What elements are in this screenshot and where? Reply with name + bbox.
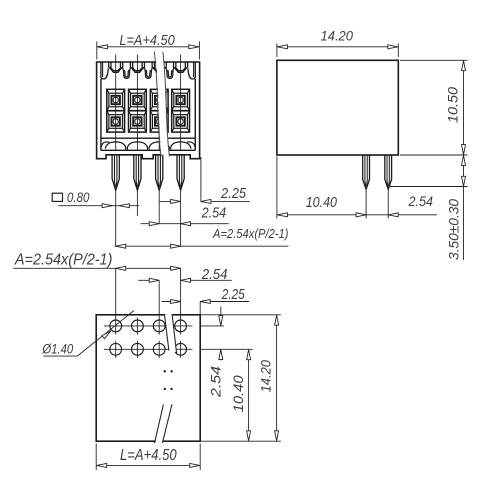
extension line right edge (2.25 bottom) bbox=[199, 302, 201, 315]
leader underline Ø1.40 bbox=[43, 355, 77, 357]
arrowhead 2.54 vertical top bbox=[219, 316, 223, 326]
arrowhead 2.25 front bbox=[171, 199, 181, 203]
socket contact col 4 row 2 bbox=[172, 111, 190, 132]
pin 1 (front) bbox=[112, 155, 119, 191]
arrowhead A front right bbox=[171, 244, 181, 248]
side pin 1 bbox=[363, 155, 370, 189]
hole col 3 row 2 (Ø1.40) bbox=[153, 343, 165, 355]
side pin 1 centerline bbox=[365, 189, 367, 218]
arrowhead L bottom left bbox=[97, 463, 107, 467]
arrowhead 14.20 left bbox=[277, 45, 287, 49]
arrowhead 10.50 top bbox=[462, 61, 466, 71]
extension line bottom right (10.50) bbox=[400, 154, 468, 156]
break line 2 (footprint bottom) bbox=[162, 405, 172, 444]
hole col 3 row 1 (Ø1.40) bbox=[153, 320, 165, 332]
svg-text:10.40: 10.40 bbox=[306, 195, 337, 211]
side view of connector bbox=[277, 29, 468, 260]
svg-text:14.20: 14.20 bbox=[258, 360, 273, 393]
arrowhead 2.54 front right bbox=[181, 222, 191, 226]
dimension line L=A+4.50 (bottom) bbox=[96, 464, 200, 466]
front view of connector bbox=[52, 32, 288, 248]
hole col 4 row 1 (Ø1.40) bbox=[175, 320, 187, 332]
arrowhead 14.20 bottom bbox=[275, 431, 279, 441]
break line 1 (front) bbox=[154, 52, 161, 157]
arrowhead 10.40 top bbox=[247, 350, 251, 360]
socket contact col 1 row 1 bbox=[107, 89, 125, 110]
centerline column 1 (front) bbox=[115, 55, 117, 151]
socket contact col 1 row 2 bbox=[107, 111, 125, 132]
arrowhead 10.40 right bbox=[356, 213, 366, 217]
footprint rectangle bbox=[96, 315, 200, 441]
hole column 3 crosshair vertical row 2 bbox=[158, 341, 160, 358]
extension row 1 to right bbox=[201, 325, 224, 327]
dimension line 10.40 and 2.54 (side) bbox=[277, 214, 437, 216]
bottom view / PCB footprint bbox=[13, 251, 281, 470]
dimension line 2.54 vertical upper part bbox=[220, 307, 222, 326]
break line 2 (footprint holes) bbox=[172, 314, 177, 353]
svg-text:2.54: 2.54 bbox=[207, 366, 223, 398]
extension line left (14.20) bbox=[276, 44, 278, 58]
extension footprint top to right bbox=[201, 314, 281, 316]
svg-text:A=2.54x(P/2-1): A=2.54x(P/2-1) bbox=[212, 226, 288, 241]
centerline column 2 (front) bbox=[136, 55, 138, 151]
dimension line 2.54 vertical lower part bbox=[220, 349, 222, 360]
arrowhead L dim right bbox=[189, 45, 199, 49]
dimension line 2.54 bottom left part bbox=[138, 279, 159, 281]
arrowhead 10.50 bottom bbox=[462, 145, 466, 155]
square symbol for 0.80 bbox=[52, 193, 62, 201]
extension line right (L bottom) bbox=[199, 444, 201, 471]
svg-text:14.20: 14.20 bbox=[321, 29, 354, 44]
tulip contact slot stubs (top band) bbox=[109, 62, 188, 72]
hole column 4 extension line up bbox=[180, 268, 182, 334]
extension line right for L dim (front) bbox=[198, 41, 200, 59]
continuation dot bbox=[170, 388, 172, 390]
centerline column 4 (front) bbox=[180, 55, 182, 151]
crosshair horizontal row 1 bbox=[104, 325, 192, 327]
svg-text:10.40: 10.40 bbox=[231, 375, 246, 413]
pin 2 (front) bbox=[134, 155, 141, 191]
inner shelf line above wave (front) bbox=[101, 137, 195, 139]
arrowhead 14.20 top bbox=[275, 315, 279, 325]
pin 3 (front) bbox=[156, 155, 163, 191]
hole col 4 row 2 (Ø1.40) bbox=[175, 343, 187, 355]
extension line right (14.20) bbox=[397, 44, 399, 58]
svg-text:2.54: 2.54 bbox=[201, 267, 228, 283]
extension line left for L dim (front) bbox=[96, 41, 98, 59]
socket contact col 2 row 2 bbox=[129, 111, 147, 132]
hole column 2 crosshair vertical row 2 bbox=[136, 341, 138, 358]
hole column 1 crosshair vertical row 2 bbox=[115, 341, 117, 358]
pin 4 centerline extension bbox=[180, 190, 182, 246]
dimension line 14.20 (side) bbox=[277, 46, 398, 48]
extension line pin tip level (3.50) bbox=[390, 186, 468, 188]
arrowhead 3.50 bottom bbox=[462, 176, 466, 186]
hole col 2 row 1 (Ø1.40) bbox=[132, 320, 144, 332]
svg-text:2.54: 2.54 bbox=[408, 194, 433, 209]
scalloped wave profile (front bottom) bbox=[101, 142, 195, 149]
arrowhead L dim left bbox=[97, 45, 107, 49]
dimension line 2.25 front left part bbox=[159, 200, 180, 202]
dimension line 2.25 bottom right part bbox=[200, 301, 249, 303]
arrowhead 2.54 vertical bottom bbox=[219, 350, 223, 360]
dimension line 2.25 front right part bbox=[201, 200, 250, 202]
dimension line 2.54 bottom right part bbox=[181, 279, 232, 281]
dimension line vertical right (10.50 / 3.50) bbox=[463, 60, 465, 260]
dimension line 10.40 vertical bbox=[248, 349, 250, 441]
side pin 2 bbox=[385, 155, 392, 189]
hole col 1 row 1 (Ø1.40) bbox=[110, 320, 122, 332]
svg-text:3.50±0.30: 3.50±0.30 bbox=[447, 199, 462, 260]
right end step (top band) bbox=[188, 62, 195, 79]
arrowhead 0.80 left bbox=[102, 204, 112, 208]
continuation dot bbox=[164, 370, 166, 372]
socket contact col 2 row 1 bbox=[129, 89, 147, 110]
arrowhead 2.54 bottom right bbox=[181, 278, 191, 282]
inner wall right (front) bbox=[194, 79, 196, 150]
svg-text:0.80: 0.80 bbox=[67, 189, 90, 205]
arrowhead 10.40 left bbox=[277, 213, 287, 217]
arrowhead 3.50 top bbox=[462, 155, 466, 165]
dimension line 14.20 vertical bbox=[276, 315, 278, 441]
side pin 2 centerline bbox=[387, 189, 389, 218]
continuation dot bbox=[164, 388, 166, 390]
break band whiteout (front) bbox=[159, 52, 166, 157]
dimension line 2.25 bottom left part bbox=[162, 301, 181, 303]
svg-text:2.25: 2.25 bbox=[221, 287, 246, 303]
svg-text:2.54: 2.54 bbox=[201, 206, 226, 222]
tulip contact wedges (top band) bbox=[109, 67, 188, 72]
arrowhead 2.54 side bbox=[388, 213, 398, 217]
arrowhead 2.54 bottom bbox=[149, 278, 159, 282]
arrowhead 0.80 right bbox=[119, 204, 129, 208]
dimension line 0.80 bbox=[58, 205, 139, 207]
arrowhead 2.25 bottom bbox=[171, 300, 181, 304]
svg-text:A=2.54x(P/2-1): A=2.54x(P/2-1) bbox=[14, 251, 112, 268]
centerline column 3 (front) bbox=[158, 88, 160, 150]
dimension line 2.54 front bbox=[141, 223, 229, 225]
leader arrowhead Ø1.40 bbox=[102, 331, 111, 339]
svg-text:Ø1.40: Ø1.40 bbox=[42, 340, 74, 356]
inner wall left (front) bbox=[100, 79, 102, 150]
break band whiteout (footprint top) bbox=[168, 314, 173, 352]
left end step (top band) bbox=[101, 62, 108, 79]
hole column 3 extension line up bbox=[158, 280, 160, 334]
hole col 2 row 2 (Ø1.40) bbox=[132, 343, 144, 355]
arrowhead A front left bbox=[116, 244, 126, 248]
pin 3 centerline extension bbox=[158, 190, 160, 224]
svg-text:10.50: 10.50 bbox=[446, 86, 461, 123]
dimension line L=A+4.50 (front) bbox=[97, 46, 200, 48]
extension line body left edge down (10.40) bbox=[276, 157, 278, 219]
break line 2 (front) bbox=[163, 52, 170, 157]
break line 1 (footprint holes) bbox=[164, 314, 169, 350]
left end inner line (top band) bbox=[102, 62, 104, 77]
leader line Ø1.40 bbox=[77, 311, 134, 357]
extension footprint bottom to right bbox=[201, 440, 281, 442]
arrowhead 14.20 right bbox=[388, 45, 398, 49]
arrowhead 2.25 bottom right bbox=[200, 300, 210, 304]
svg-text:2.25: 2.25 bbox=[220, 186, 247, 202]
arrowhead L bottom right bbox=[190, 463, 200, 467]
socket contact col 4 row 1 bbox=[172, 89, 190, 110]
dimension line A (bottom view) bbox=[13, 267, 181, 269]
arrowhead 10.40 bottom bbox=[247, 431, 251, 441]
pin 4 (front) bbox=[177, 155, 184, 191]
arrowhead 2.54 front left bbox=[149, 222, 159, 226]
arrowhead A bottom left bbox=[116, 266, 126, 270]
front body outline with feet bbox=[97, 62, 200, 159]
side body rectangle bbox=[277, 60, 398, 155]
hole column 2 crosshair vertical row 1 bbox=[136, 317, 138, 334]
extension line left (L bottom) bbox=[95, 444, 97, 471]
right end inner line (top band) bbox=[193, 62, 195, 77]
socket contact col 3 row 2 bbox=[150, 111, 168, 132]
hole column 4 crosshair vertical row 2 bbox=[180, 341, 182, 358]
svg-text:L=A+4.50: L=A+4.50 bbox=[119, 32, 175, 49]
hole column 1 extension line up bbox=[115, 268, 117, 334]
arrowhead A bottom right bbox=[171, 266, 181, 270]
dimension line A front bbox=[115, 245, 289, 247]
arrowhead 2.25 front right bbox=[201, 199, 211, 203]
pin 1 centerline extension bbox=[115, 190, 117, 246]
extension row 2 to right bbox=[201, 348, 253, 350]
pin 2 centerline extension bbox=[136, 190, 138, 216]
deep U notches between contacts (top band) bbox=[123, 68, 174, 79]
break band whiteout (footprint bottom) bbox=[159, 404, 168, 444]
break line 1 (footprint bottom) bbox=[155, 405, 164, 444]
continuation dot bbox=[170, 370, 172, 372]
socket contact col 3 row 1 bbox=[150, 89, 168, 110]
svg-text:L=A+4.50: L=A+4.50 bbox=[120, 447, 177, 464]
extension line body edge (front 2.25) bbox=[200, 157, 202, 202]
crosshair horizontal row 2 bbox=[104, 348, 192, 350]
extension line top right (10.50) bbox=[400, 59, 468, 61]
inner bottom line (front) bbox=[101, 149, 195, 151]
hole col 1 row 2 (Ø1.40) bbox=[110, 343, 122, 355]
